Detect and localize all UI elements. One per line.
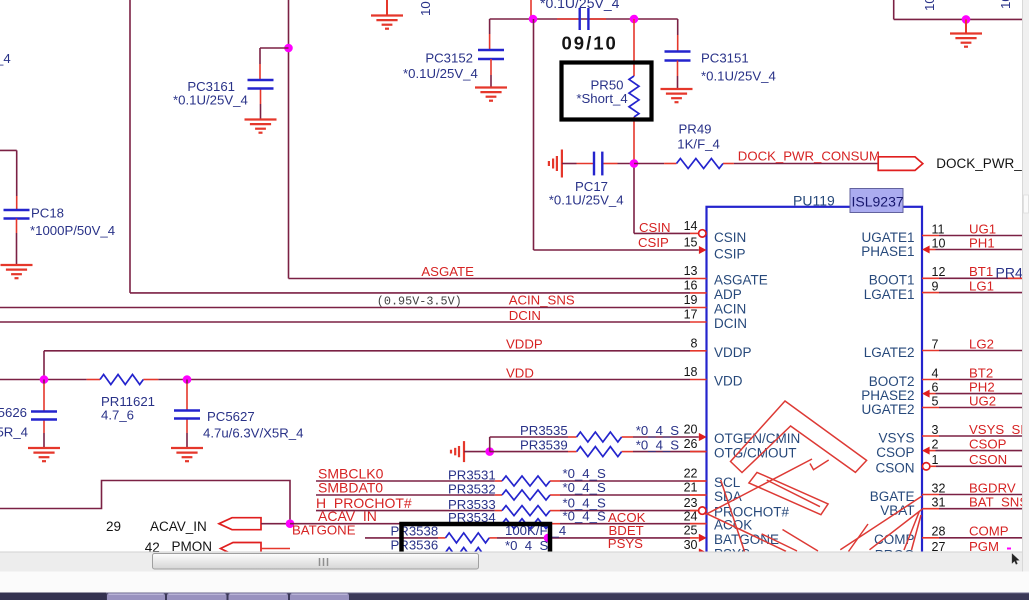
watermark diagonal through SCL [721,480,745,552]
arrow pin30 [699,549,707,557]
value 4.7_6 [101,408,134,423]
svg-text:CSOP: CSOP [969,436,1007,451]
pin 17 DCIN [684,308,747,331]
capacitor PC5627 [174,411,200,419]
label PC18 [31,206,64,221]
svg-text:7: 7 [932,337,939,351]
svg-text:SCL: SCL [714,475,741,490]
pin 7 LGATE2 / net LG2 [864,336,1022,360]
junction at (288.5,48) [284,44,293,53]
svg-text:BAT_SNS: BAT_SNS [969,495,1028,510]
svg-text:23: 23 [684,496,698,510]
wire SMBCLK0 row [316,480,707,482]
resistor PR44 lead red [1008,277,1022,279]
pin 6 PHASE2 / net PH2 [861,379,1022,403]
label PR3531 [448,468,496,483]
pin 24 ACOK [684,509,753,532]
wire CSIN feed [634,164,690,234]
wire vertical x288.5 (ASGATE feed) [289,0,691,279]
junction at (290,523.7) [286,519,295,528]
pin 21 SDA [684,481,742,504]
watermark fan lines [762,496,922,551]
pin 9 LGATE1 / net LG1 [864,278,1022,302]
net label ACOK [608,510,646,525]
svg-text:*1000P/50V_4: *1000P/50V_4 [30,223,115,238]
svg-text:4.7u/6.3V/X5R_4: 4.7u/6.3V/X5R_4 [203,426,303,441]
svg-text:OTGEN/CMIN: OTGEN/CMIN [714,431,800,446]
net label PSYS [608,536,643,551]
wire PC3151 lower lead [677,61,679,90]
pin 10 PHASE1 / net PH1 [861,235,1022,258]
svg-text:ACIN_SNS: ACIN_SNS [509,293,575,308]
svg-text:LGATE1: LGATE1 [864,287,915,302]
svg-text:ACIN: ACIN [714,302,746,317]
value *0 4 S PR3531 [563,466,606,481]
svg-text:ACAV_IN: ACAV_IN [150,519,207,534]
svg-text:UGATE2: UGATE2 [861,402,914,417]
svg-text:PU119: PU119 [793,193,835,209]
wire OTGCM row [490,451,707,453]
svg-text:4.7u/10V/X5R_4: 4.7u/10V/X5R_4 [0,425,28,440]
capacitor PC3151 [665,52,691,61]
wire DCIN row [0,321,690,323]
connector PMON arrow [221,543,262,555]
svg-text:*Short_4: *Short_4 [576,91,627,106]
svg-text:CSOP: CSOP [876,445,914,460]
selection highlight box [402,524,551,554]
off-page connector DOCK_PWR [878,157,923,171]
net label H_PROCHOT# [316,495,412,511]
capacitor PC5626 leads [43,380,45,448]
label PR3534 [448,510,496,525]
ground PC5627 [171,448,203,461]
capacitor PC5627 leads [186,380,188,448]
net label BATGONE [292,523,356,538]
pin 26 OTG/CMOUT [684,437,797,460]
wire PSYS row [438,552,699,554]
rotated value text 10 left [418,1,433,16]
wire PR50 to PC17 junction [633,117,635,164]
svg-text:PR3539: PR3539 [520,438,568,453]
pin 1 CSON / net CSON [875,452,1022,476]
svg-text:PSYS: PSYS [608,536,643,551]
svg-text:12: 12 [932,265,946,279]
scrollbar grip [319,558,321,566]
mouse cursor [1012,554,1019,565]
value 100K/F_4 [505,523,566,538]
label PR11621 [101,394,155,409]
svg-text:24: 24 [684,509,698,523]
watermark diagonal through PROCHOT [705,459,812,515]
wire VDD row [0,379,690,381]
pin 25 BATGONE [684,524,779,547]
horizontal scrollbar track [0,552,1022,572]
capacitor lead stub above junction [530,0,532,19]
svg-text:PR3535: PR3535 [520,423,568,438]
wire PC3161 top link [260,47,289,49]
svg-text:BOOT2: BOOT2 [869,374,915,389]
pin 27 PROG / net PGM [875,539,1022,563]
rotated value text 10 (x929) [922,0,937,11]
wire vertical x130 (ADP feed) [130,0,690,293]
pin 8 VDDP [690,336,752,359]
svg-text:4.7_6: 4.7_6 [101,408,134,423]
svg-text:10: 10 [932,236,946,250]
ground G1 top-left [371,0,403,29]
label PR49 [679,122,712,137]
svg-text:32: 32 [932,481,946,495]
label PC5627 [207,409,255,424]
pin 31 VBAT / net BAT_SNS [880,495,1028,519]
resistor PR3535 zigzag [577,432,622,442]
pin 23 PROCHOT# [684,496,790,519]
net label VDDP [506,337,543,352]
svg-text:CSIP: CSIP [638,235,669,250]
value label *0.1U/25V_4 (clipped at top) [540,0,620,11]
resistor PR3532 zigzag [502,490,550,500]
svg-text:*0_4_S: *0_4_S [505,538,548,553]
svg-text:09/10: 09/10 [562,33,618,54]
label PR3536 [391,538,439,553]
svg-text:14: 14 [684,219,698,233]
op-amp U PU119 body [707,207,923,555]
svg-text:31: 31 [932,496,946,510]
resistor PR3533 zigzag [502,506,550,516]
resistor PR11621 zigzag [100,375,143,385]
svg-text:4: 4 [932,366,939,380]
svg-text:1K/F_4: 1K/F_4 [677,137,720,152]
svg-text:SMBDAT0: SMBDAT0 [318,480,383,496]
value *Short_4 [576,91,627,106]
pin number 42 [145,540,160,555]
label PC17 [575,179,608,194]
svg-text:BT1: BT1 [969,264,993,279]
net label SMBDAT0 [318,480,383,496]
watermark stroke B [749,472,828,514]
svg-text:15: 15 [684,236,698,250]
capacitor PC5626 [31,412,57,420]
pin 32 BGATE / net BGDRV [870,480,1022,504]
capacitor PC3161 [248,80,274,89]
wire ACAV_IN to junction [261,523,290,525]
ground top-right [950,19,982,46]
label PU119 [793,193,835,209]
svg-text:ISL9237: ISL9237 [852,193,904,209]
svg-text:DCIN: DCIN [714,316,747,331]
wire PC3151 lead [677,19,679,51]
svg-text:LGATE2: LGATE2 [864,345,915,360]
svg-text:5: 5 [932,394,939,408]
label PR3535 [520,423,568,438]
value 1K/F_4 [677,137,720,152]
svg-text:17: 17 [684,308,698,322]
svg-text:21: 21 [684,481,698,495]
power symbol left of PC17 [549,150,562,178]
vertical scrollbar track [1022,0,1029,572]
svg-text:*0.1U/25V_4: *0.1U/25V_4 [540,0,620,11]
svg-text:PR3532: PR3532 [448,482,496,497]
svg-text:PR49: PR49 [679,122,712,137]
wire PC18 lower lead [16,219,18,265]
watermark corner [810,460,829,470]
svg-text:*0.1U/25V_4: *0.1U/25V_4 [701,69,776,84]
pin 12 BOOT1 / net BT1 [869,264,1022,288]
pin 20 OTGEN/CMIN [684,423,801,446]
value *0.1U/25V_4 PC17 [549,193,624,208]
junction at (634,163.5) [630,159,639,168]
capacitor PC17 [594,152,602,176]
value *0 4 S PR3532 [563,480,606,495]
wire vertical into PR50 [633,19,635,76]
svg-text:*0.1U/25V_4: *0.1U/25V_4 [403,66,478,81]
svg-text:28: 28 [932,525,946,539]
svg-text:PHASE2: PHASE2 [861,388,914,403]
highlight frame around PR50 [562,63,652,120]
svg-text:BOOT1: BOOT1 [869,273,915,288]
wire OTGEN row [490,437,699,452]
capacitor PC17 leads [562,163,634,165]
value *0 4 S PR3536 [505,538,548,553]
pin 5 UGATE2 / net UG2 [861,393,1022,417]
capacitor PC18 [4,210,30,219]
svg-text:ASGATE: ASGATE [714,273,768,288]
svg-text:DOCK_PWR_CONSUM: DOCK_PWR_CONSUM [936,156,1029,171]
label PR50 [591,78,624,93]
svg-text:VDD: VDD [714,374,743,389]
pin 13 ASGATE [684,264,768,287]
svg-text:*0_4_S: *0_4_S [563,480,606,495]
resistor PR49 zigzag [677,159,724,169]
pin 14 CSIN [684,219,747,245]
pin 11 UGATE1 / net UG1 [861,221,1022,245]
capacitor PC3152 [478,50,504,59]
capacitor C-series top (plates) [557,8,606,30]
junction at (44,379.5) [40,375,49,384]
svg-text:DOCK_PWR_CONSUM: DOCK_PWR_CONSUM [738,149,880,164]
svg-text:_4: _4 [0,51,11,66]
svg-text:CSIP: CSIP [714,247,746,262]
pin number 29 [106,519,121,534]
ground PC3151 [661,89,693,102]
svg-text:PH1: PH1 [969,235,995,250]
svg-text:BATGONE: BATGONE [292,523,356,538]
junction at (548,537.9) [544,534,553,543]
value *0.1U/25V_4 PC3151 [701,69,776,84]
pin name PMON [172,539,213,554]
svg-text:*0_4_S: *0_4_S [563,509,606,524]
label PC3151 [701,51,749,66]
svg-text:PR3536: PR3536 [391,538,439,553]
wire VDDP row [44,351,690,380]
svg-text:PC18: PC18 [31,206,64,221]
capacitor PC3161 leads [259,48,262,119]
svg-text:LG1: LG1 [969,278,994,293]
svg-text:10: 10 [998,0,1013,9]
pin 28 COMP / net COMP [874,524,1022,548]
value *0 4 S PR3539 [636,438,679,453]
status strip [0,572,1029,593]
svg-text:11: 11 [932,222,945,236]
value *1000P/50V_4 [30,223,115,238]
svg-text:DCIN: DCIN [509,308,541,323]
svg-text:UGATE1: UGATE1 [861,230,914,245]
svg-text:PH2: PH2 [969,379,995,394]
wire PR49 leads [634,163,878,165]
power symbol PR3539 row [451,441,464,462]
net label ACAV_IN [318,508,377,524]
watermark diagonal bottom right [849,524,869,552]
svg-text:BGDRV: BGDRV [969,480,1016,495]
pin 22 SCL [684,467,741,490]
value 4.7u/6.3V/X5R_4 [203,426,303,441]
watermark diagonal upper right [767,480,820,507]
value *0.1U/25V_4 PC3161 [173,93,248,108]
junction at (489.7,451.6) [485,447,494,456]
taskbar buttons [107,593,165,600]
pin 3 VSYS / net VSYS_SNS [878,422,1029,446]
svg-text:UG1: UG1 [969,221,996,236]
svg-text:19: 19 [684,293,698,307]
net label ASGATE [421,264,474,279]
label PR3539 [520,438,568,453]
wire gnd to junction [464,451,490,453]
wire ACAV_IN row [290,523,707,525]
svg-text:ADP: ADP [714,287,742,302]
resistor PR3536 zigzag [446,548,490,558]
pin 18 VDD [684,365,743,388]
svg-text:3: 3 [932,423,939,437]
wire vertical x533.5 (CSIP feed) [534,19,699,250]
svg-text:9: 9 [932,279,939,293]
svg-text:*0.1U/25V_4: *0.1U/25V_4 [549,193,624,208]
svg-text:PC5626: PC5626 [0,405,27,420]
value *0 4 S PR3535 [636,423,679,438]
svg-text:10: 10 [922,0,937,11]
svg-text:*0_4_S: *0_4_S [636,423,679,438]
svg-text:PC5627: PC5627 [207,409,255,424]
ground PC3161 [245,120,277,133]
wire top-right horizontal [894,0,1022,19]
net label DOCK_PWR_CONSUM [738,149,880,164]
svg-text:8: 8 [691,336,698,350]
svg-text:CSON: CSON [875,461,914,476]
svg-text:PR3531: PR3531 [448,468,496,483]
wire PC3152 lead [489,19,491,49]
taskbar [0,593,1029,600]
svg-text:VSYS_SNS: VSYS_SNS [969,422,1029,437]
net label SMBCLK0 [318,466,384,482]
svg-text:BT2: BT2 [969,365,993,380]
rotated value text 10 (x1005) [998,0,1013,9]
wire PMON stub [261,548,290,550]
wire PC18 stub [0,150,17,209]
svg-text:6: 6 [932,380,939,394]
wire PC3152 lower lead [490,59,492,88]
arrow pin25 [699,534,707,542]
svg-text:CSIN: CSIN [639,220,671,235]
svg-text:PHASE1: PHASE1 [861,244,914,259]
date stamp 09/10 [562,33,618,54]
svg-text:29: 29 [106,519,121,534]
svg-text:OTG/CMOUT: OTG/CMOUT [714,446,797,461]
svg-text:*0_4_S: *0_4_S [563,466,606,481]
svg-text:26: 26 [684,437,698,451]
resistor PR3538 zigzag [446,533,490,543]
svg-text:30: 30 [684,538,698,552]
svg-text:13: 13 [684,264,698,278]
svg-text:22: 22 [684,467,698,481]
hierarchical outline [0,481,290,524]
pin 4 BOOT2 / net BT2 [869,365,1022,389]
wire top horizontal net [490,18,678,20]
svg-text:CSON: CSON [969,452,1007,467]
value X5R_4 (clipped) [0,425,28,440]
svg-text:2: 2 [932,437,939,451]
pin 16 ADP [684,279,742,302]
wire H_PROCHOT# row [316,510,707,512]
ground PC18 [1,265,33,278]
resistor PR3539 zigzag [577,447,622,457]
voltage note (0.95V-3.5V) [377,295,462,309]
svg-text:*0.1U/25V_4: *0.1U/25V_4 [173,93,248,108]
value *0 4 S PR3534 [563,509,606,524]
resistor PR50 zigzag [629,76,639,117]
net label CSIN [639,220,671,235]
junction at (533,19) [529,15,538,24]
label PR3538 [391,524,439,539]
resistor PR3531 zigzag [502,476,550,486]
svg-text:VDDP: VDDP [714,345,752,360]
svg-text:ASGATE: ASGATE [421,264,474,279]
svg-text:_4: _4 [551,523,567,538]
svg-text:PC3152: PC3152 [425,51,473,66]
net label ACIN_SNS [509,293,575,308]
label PR3532 [448,482,496,497]
connector ACAV_IN arrow [219,518,261,530]
junction at (634,19) [630,15,639,24]
svg-text:CSIN: CSIN [714,230,746,245]
net label BDET [609,523,644,538]
svg-text:PC3151: PC3151 [701,51,749,66]
svg-text:(0.95V-3.5V): (0.95V-3.5V) [377,295,462,309]
part number ISL9237 highlighted [850,189,904,213]
arrow pin20 [699,433,707,441]
svg-text:BGATE: BGATE [870,489,915,504]
wire BDET row [365,537,699,539]
label PC3161 [187,79,235,94]
pin 19 ACIN [684,293,747,316]
net label VDD [506,366,534,381]
watermark diagonal through BATGONE [706,513,786,551]
svg-text:16: 16 [684,279,698,293]
clipped net label _4 top-left [0,51,11,66]
svg-text:LG2: LG2 [969,336,994,351]
resistor PR3534 zigzag [502,519,550,529]
pin name ACAV_IN [150,519,207,534]
value *0.1U/25V_4 PC3152 [403,66,478,81]
value *0 4 S PR3533 [563,496,606,511]
svg-text:18: 18 [684,365,698,379]
svg-text:BATGONE: BATGONE [714,532,779,547]
junction at (187,379.5) [183,375,192,384]
svg-text:UG2: UG2 [969,393,996,408]
text DOCK_PWR_CONSUM black [936,156,1029,171]
svg-text:COMP: COMP [969,524,1009,539]
label PR3533 [448,497,496,512]
wire ACIN row [0,307,690,309]
ground PC3152 [475,88,507,101]
watermark stroke A [731,401,867,473]
